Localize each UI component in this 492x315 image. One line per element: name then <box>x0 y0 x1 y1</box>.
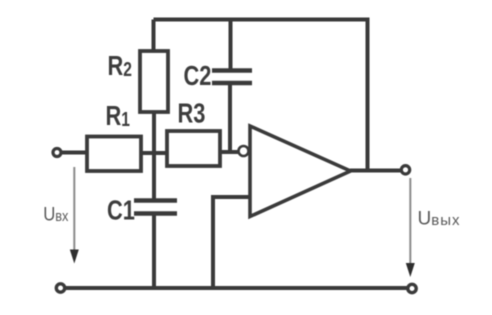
output terminal <box>401 166 409 174</box>
capacitor C2 <box>212 71 252 84</box>
arrow Uvx (input voltage) <box>70 167 79 264</box>
resistor R1 <box>87 137 141 172</box>
svg-text:Uвх: Uвх <box>43 204 68 225</box>
svg-text:C2: C2 <box>184 60 212 91</box>
wire ground rail <box>65 286 407 290</box>
wire R3 to op-amp inverting input <box>220 150 239 154</box>
arrow Uvyx (output voltage) <box>406 178 415 277</box>
wire R2 top lead <box>152 20 156 53</box>
wire C1 top lead from node A <box>152 153 156 201</box>
wire R1 to R3 (node A) <box>141 151 168 155</box>
wire C1 bottom lead to ground rail <box>152 214 156 289</box>
svg-text:C1: C1 <box>107 195 135 226</box>
capacitor C1 <box>134 201 177 214</box>
resistor R2 <box>140 51 168 112</box>
wire op-amp output <box>350 169 401 173</box>
wire R2 bottom lead to node A <box>152 112 156 154</box>
wire non-inverting input to ground rail <box>213 197 250 288</box>
svg-text:Uвых: Uвых <box>418 209 461 230</box>
ground terminal left <box>56 284 64 292</box>
svg-text:R3: R3 <box>178 98 206 129</box>
resistor R3 <box>167 131 220 166</box>
wire input to R1 <box>62 151 88 155</box>
op-amp U1 <box>250 126 351 217</box>
svg-text:R1: R1 <box>106 100 130 131</box>
svg-text:R2: R2 <box>108 50 132 81</box>
wire C2 bottom lead to inverting input <box>228 83 232 152</box>
ground terminal right <box>408 284 416 292</box>
input terminal <box>53 149 61 157</box>
inverting input bubble <box>239 146 249 156</box>
wire C2 top lead <box>229 20 233 71</box>
wire top feedback rail <box>154 20 368 171</box>
